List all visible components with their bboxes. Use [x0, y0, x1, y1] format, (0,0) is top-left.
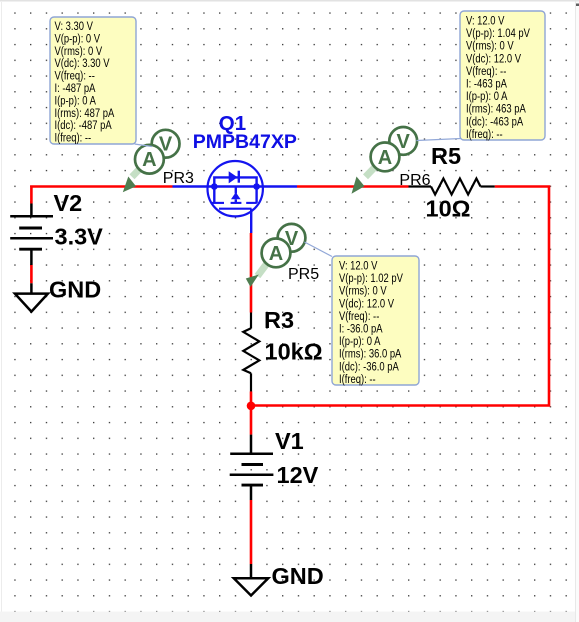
svg-text:R3: R3	[264, 307, 294, 333]
resistor R3	[243, 313, 259, 392]
Q1 body diode triangle	[229, 171, 238, 183]
left workspace edge	[1, 2, 2, 612]
probe box PR6 measurements	[460, 11, 545, 141]
svg-text:V(freq): --: V(freq): --	[466, 65, 507, 78]
callout line probe box 1	[135, 144, 153, 147]
svg-text:V(freq): --: V(freq): --	[339, 310, 380, 323]
probe PR5 arrow	[246, 264, 267, 287]
source V2 battery symbol	[10, 204, 53, 266]
probe PR3 circles	[135, 130, 180, 174]
svg-text:V: 12.0 V: V: 12.0 V	[339, 260, 378, 273]
svg-text:PR6: PR6	[399, 172, 430, 189]
svg-text:I(freq): --: I(freq): --	[466, 128, 503, 141]
svg-text:I: -487 pA: I: -487 pA	[55, 82, 97, 95]
wire: V1 bottom to GND (red vertical segment)	[250, 500, 253, 564]
Q1 left pin stub	[173, 185, 215, 187]
svg-text:12V: 12V	[277, 462, 319, 488]
right scrollbar strip	[575, 2, 579, 622]
bottom scrollbar strip	[0, 612, 579, 622]
svg-text:I(dc): -487 pA: I(dc): -487 pA	[55, 119, 113, 132]
Q1 right contact	[255, 187, 257, 203]
ground symbol GND (bottom)	[234, 564, 268, 596]
svg-text:10kΩ: 10kΩ	[265, 339, 323, 365]
svg-text:I: -463 pA: I: -463 pA	[466, 78, 508, 91]
svg-text:PR3: PR3	[163, 170, 194, 187]
svg-text:V(p-p): 1.04 pV: V(p-p): 1.04 pV	[466, 27, 531, 40]
probe box PR3 measurements	[50, 17, 136, 145]
Q1 main horizontal line	[214, 185, 256, 187]
callout line probe box 2	[417, 139, 462, 141]
svg-text:V(dc): 3.30 V: V(dc): 3.30 V	[55, 57, 111, 70]
svg-text:PR5: PR5	[288, 266, 319, 283]
top window edge	[0, 0, 579, 2]
svg-text:I(dc): -463 pA: I(dc): -463 pA	[466, 115, 524, 128]
svg-text:R5: R5	[431, 143, 461, 169]
wire: net from R5 right around to junction (red, right side loop)	[251, 187, 549, 406]
Q1 right pin stub	[257, 185, 297, 187]
svg-text:V(rms): 0 V: V(rms): 0 V	[466, 40, 514, 53]
svg-text:I(rms): 487 pA: I(rms): 487 pA	[55, 107, 116, 120]
wire: V2 bottom to GND (red vertical segment)	[30, 265, 33, 283]
svg-text:A: A	[142, 149, 156, 171]
right scrollbar thumb mark	[576, 4, 579, 7]
svg-text:I(dc): -36.0 pA: I(dc): -36.0 pA	[339, 360, 400, 373]
svg-text:PMPB47XP: PMPB47XP	[193, 131, 297, 153]
probe PR6 arrow	[352, 167, 376, 194]
svg-text:I(rms): 36.0 pA: I(rms): 36.0 pA	[339, 348, 402, 361]
svg-text:V: V	[397, 131, 411, 153]
svg-text:V(dc): 12.0 V: V(dc): 12.0 V	[466, 52, 522, 65]
svg-text:I(p-p): 0 A: I(p-p): 0 A	[339, 335, 381, 348]
svg-text:I(freq): --: I(freq): --	[55, 132, 92, 145]
svg-text:V(rms): 0 V: V(rms): 0 V	[339, 285, 387, 298]
svg-text:V: 12.0 V: V: 12.0 V	[466, 15, 505, 28]
resistor R5	[409, 179, 495, 195]
ground symbol GND (left)	[15, 283, 48, 311]
Q1 gate plate	[219, 208, 252, 210]
MOSFET Q1 PMPB47XP	[173, 161, 298, 233]
svg-text:V: V	[285, 228, 299, 250]
wire: net from V2 to Q1 drain (red, top-left horizontal)	[31, 187, 172, 204]
Q1 terminal dots	[211, 183, 218, 190]
wire: net from Q1 to R5 (red, top-right horizontal)	[297, 185, 409, 188]
svg-text:V1: V1	[275, 428, 304, 454]
callout line probe box 3	[305, 242, 333, 257]
Q1 body diode cathode bar	[238, 171, 240, 183]
svg-text:I(rms): 463 pA: I(rms): 463 pA	[466, 103, 527, 116]
Q1 left contact	[213, 187, 215, 203]
svg-text:V(dc): 12.0 V: V(dc): 12.0 V	[339, 297, 395, 310]
svg-text:3.3V: 3.3V	[55, 224, 104, 250]
wire: net Q1 gate to R3 (red vertical)	[250, 233, 253, 313]
Q1 circle body	[208, 161, 263, 216]
svg-text:V(p-p): 1.02 pV: V(p-p): 1.02 pV	[339, 272, 404, 285]
svg-text:A: A	[269, 243, 283, 265]
svg-text:GND: GND	[272, 563, 324, 589]
Q1 gate pin stub down	[250, 209, 252, 233]
svg-text:V2: V2	[54, 190, 83, 216]
svg-text:I(freq): --: I(freq): --	[339, 373, 376, 386]
probe PR3 arrow	[123, 167, 142, 192]
svg-text:V: 3.30 V: V: 3.30 V	[55, 20, 94, 33]
source V1 battery symbol	[230, 435, 274, 500]
svg-text:V(rms): 0 V: V(rms): 0 V	[55, 45, 103, 58]
svg-text:I: -36.0 pA: I: -36.0 pA	[339, 323, 383, 336]
junction node (red dot)	[247, 402, 256, 411]
svg-text:V(freq): --: V(freq): --	[55, 70, 96, 83]
Q1 middle contact with substrate arrow	[235, 187, 237, 194]
svg-text:V(p-p): 0 V: V(p-p): 0 V	[55, 32, 101, 45]
wire: R3 bottom to junction to V1 (red vertical)	[250, 391, 253, 434]
svg-text:I(p-p): 0 A: I(p-p): 0 A	[466, 90, 508, 103]
probe PR5 circles	[262, 224, 306, 267]
svg-text:GND: GND	[49, 277, 101, 303]
svg-text:V: V	[159, 134, 173, 156]
Q1 top line with risers	[214, 177, 256, 186]
svg-text:I(p-p): 0 A: I(p-p): 0 A	[55, 94, 97, 107]
probe PR6 circles	[371, 127, 418, 171]
svg-text:A: A	[378, 147, 392, 169]
probe box PR5 measurements	[332, 256, 419, 386]
svg-text:10Ω: 10Ω	[426, 196, 471, 222]
